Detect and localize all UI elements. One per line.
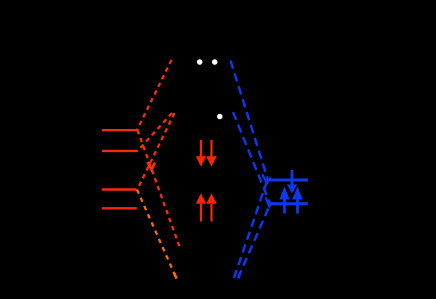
- blue junction chevron at B2 left end: [266, 198, 273, 207]
- dashed connector D3 (L2 left to R3): [138, 113, 175, 189]
- crossing blob X: [148, 162, 156, 170]
- dashed connector D2 (L2 left to R2): [138, 113, 172, 151]
- electron dot 1 on L1: [197, 59, 203, 65]
- level R3: [102, 188, 137, 190]
- blue junction chevron at B1 left end: [262, 174, 271, 183]
- blue dashed connector BD3 (bottom apex to upper blue level): [234, 183, 267, 279]
- dashed connector D4 (R1 down-right): [138, 130, 181, 248]
- blue level B1 upper: [270, 179, 308, 182]
- electron dot 3 on L2: [217, 114, 223, 120]
- blue up arrow 2 on B2: [292, 186, 302, 213]
- red up arrow 2: [206, 193, 216, 221]
- blue down arrow on B1: [287, 170, 297, 194]
- orange line end blob: [174, 273, 176, 278]
- red down arrow 2: [206, 140, 216, 167]
- dashed connector D5 orange (R3 to bottom apex): [137, 190, 177, 279]
- blue bottom end blob right: [238, 274, 240, 279]
- red down arrow 1: [196, 140, 206, 167]
- blue level B2 lower: [270, 202, 308, 205]
- blue bottom end blob left: [234, 272, 236, 277]
- dashed connector D1 (top apex to R1): [137, 60, 172, 130]
- blue dashed connector BD4 (bottom apex to lower blue level): [238, 204, 271, 279]
- level R1: [102, 129, 138, 131]
- electron dot 2 on L1: [212, 59, 218, 65]
- blue dashed connector BD2 (L2 right to lower blue level): [233, 112, 270, 204]
- red up arrow 1: [196, 193, 206, 221]
- level R4: [102, 207, 137, 209]
- blue up arrow 1 on B2: [279, 186, 289, 213]
- level R2: [102, 150, 138, 152]
- blue dashed connector BD1 (L1 right to upper blue level): [231, 61, 269, 182]
